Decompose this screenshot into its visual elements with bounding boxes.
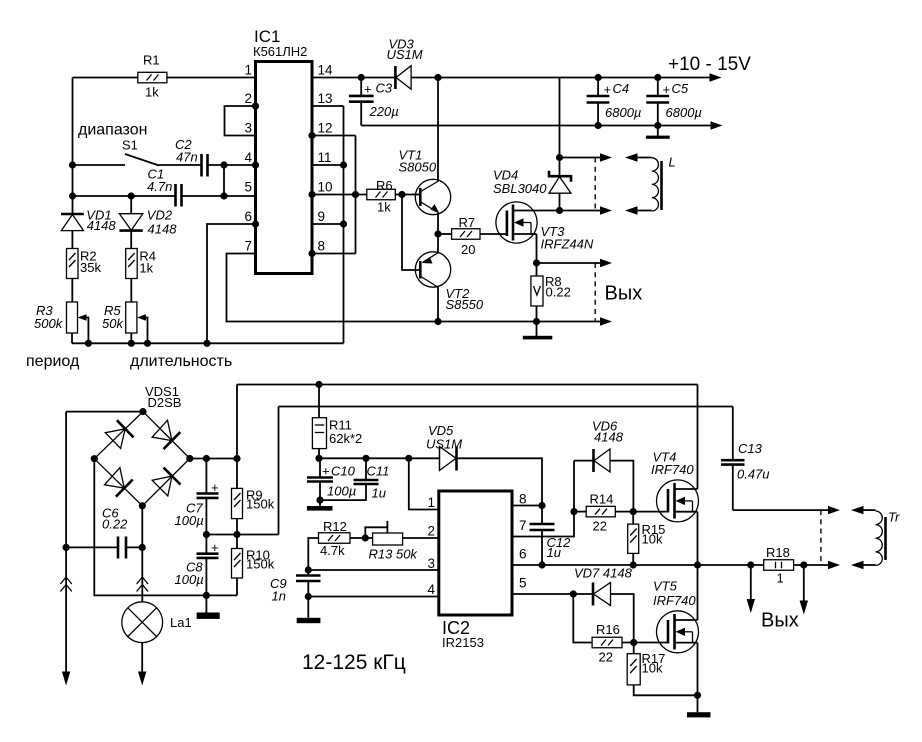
wire VT4 drain riser	[697, 385, 699, 490]
svg-text:5: 5	[244, 180, 252, 195]
svg-text:IRF740: IRF740	[651, 462, 694, 477]
node C6 right	[139, 544, 146, 551]
node R5 bottom	[128, 340, 135, 347]
node R5 wiper	[144, 340, 151, 347]
svg-text:10k: 10k	[642, 661, 663, 676]
node bridge E	[186, 455, 193, 462]
inductor L	[636, 155, 676, 212]
svg-text:R1: R1	[143, 53, 160, 68]
node C1 rail	[69, 192, 76, 199]
wire bridge minus	[94, 459, 237, 596]
potentiometer R13 50k	[365, 521, 439, 562]
svg-text:IRF740: IRF740	[653, 593, 696, 608]
svg-text:R7: R7	[459, 215, 476, 230]
node C2 link	[220, 161, 227, 168]
wire VT1 collector to +V	[437, 78, 439, 182]
node VD4 top	[556, 154, 563, 161]
node VT2 collector	[434, 318, 441, 325]
wire pin7 riser	[512, 461, 574, 537]
node R11 bottom	[315, 455, 322, 462]
svg-text:+: +	[604, 82, 612, 97]
svg-text:IR2153: IR2153	[442, 635, 484, 650]
capacitor C5	[646, 78, 702, 126]
wire bus2 pins 12-10-8	[312, 136, 356, 254]
svg-text:35k: 35k	[80, 260, 101, 275]
wire R2-R3	[71, 279, 73, 303]
svg-text:100µ: 100µ	[327, 484, 356, 499]
node VT5 source	[694, 692, 701, 699]
svg-text:50k: 50k	[102, 316, 124, 331]
node bridge S	[139, 502, 146, 509]
svg-text:11: 11	[318, 150, 332, 165]
svg-text:S8550: S8550	[446, 297, 484, 312]
node pin8	[538, 502, 545, 509]
wire L upper feed	[560, 157, 602, 159]
resistor R11 62k*2	[312, 385, 362, 459]
node VD4 bottom	[556, 207, 563, 214]
wire R6 node to VT2 base	[402, 195, 420, 271]
node pin8	[308, 250, 315, 257]
svg-text:0.22: 0.22	[546, 285, 571, 300]
transformer Tr	[862, 510, 900, 566]
svg-text:1n: 1n	[272, 589, 286, 604]
svg-text:R6: R6	[376, 178, 393, 193]
wire VT4 source riser	[697, 512, 699, 565]
svg-text:1k: 1k	[145, 85, 159, 100]
svg-text:US1M: US1M	[426, 437, 462, 452]
wire half-bridge mid rail	[279, 406, 733, 408]
svg-text:1u: 1u	[547, 545, 561, 560]
ground VT2 R8	[523, 322, 553, 340]
resistor R10	[232, 535, 275, 596]
diode VD6 4148	[574, 419, 633, 512]
arrow Tr lower feed	[828, 561, 840, 569]
arrow L upper	[600, 153, 612, 161]
bridge diode SW	[105, 468, 133, 497]
svg-text:C11: C11	[367, 464, 390, 479]
svg-text:Вых: Вых	[605, 283, 643, 305]
resistor R17	[627, 643, 697, 696]
capacitor C8	[175, 535, 219, 596]
node C1 link	[220, 192, 227, 199]
svg-text:R13 50k: R13 50k	[369, 547, 419, 562]
resistor R15	[628, 512, 666, 565]
node C4 top	[595, 74, 602, 81]
svg-text:4: 4	[244, 150, 252, 165]
svg-text:S8050: S8050	[399, 160, 437, 175]
svg-text:VD7 4148: VD7 4148	[574, 566, 633, 581]
svg-text:+: +	[663, 82, 671, 97]
svg-text:1: 1	[777, 571, 784, 586]
svg-text:VT5: VT5	[653, 579, 678, 594]
svg-text:22: 22	[593, 519, 607, 534]
pin numbers IC2 left	[427, 495, 435, 597]
wire +V rail	[438, 77, 711, 79]
svg-text:0.22: 0.22	[102, 517, 128, 532]
svg-text:R12: R12	[323, 519, 347, 534]
svg-text:К561ЛН2: К561ЛН2	[253, 44, 307, 59]
wire AC input 1	[66, 412, 143, 672]
svg-text:22: 22	[599, 650, 613, 665]
wire pin3 row	[308, 569, 439, 571]
capacitor C4	[587, 78, 642, 126]
node pin4	[252, 161, 259, 168]
node C10 bottom	[316, 497, 323, 504]
op-amp IC1 K561LN2 box	[253, 27, 312, 274]
svg-text:0.47u: 0.47u	[737, 467, 770, 482]
svg-text:7: 7	[519, 518, 527, 533]
resistor R2	[67, 249, 102, 279]
arrow Vyh upper	[600, 259, 612, 267]
svg-text:+: +	[322, 464, 330, 479]
svg-text:1: 1	[244, 63, 252, 78]
capacitor C3	[349, 78, 399, 126]
capacitor C6	[66, 506, 142, 559]
ground VT5	[687, 695, 711, 717]
svg-text:S1: S1	[122, 138, 138, 153]
wire R16 left riser	[573, 594, 592, 643]
wire cap midpoint rail	[206, 407, 278, 535]
wire VT1 emitter to R7 node	[437, 213, 439, 234]
svg-text:13: 13	[318, 91, 333, 106]
node bridge W	[91, 455, 98, 462]
capacitor C13	[721, 407, 770, 511]
node C4 bottom	[595, 122, 602, 129]
svg-text:L: L	[669, 155, 676, 170]
svg-text:100µ: 100µ	[175, 513, 204, 528]
resistor R14	[574, 492, 668, 534]
svg-text:C3: C3	[376, 81, 393, 96]
AC break marks input1	[60, 577, 71, 592]
svg-text:3: 3	[427, 556, 435, 571]
svg-text:220µ: 220µ	[369, 104, 399, 119]
wire VT5 drain riser	[697, 565, 699, 620]
node R14 left	[570, 508, 577, 515]
node bridge N	[139, 408, 146, 415]
svg-text:12-125 кГц: 12-125 кГц	[302, 651, 406, 674]
arrow Tr coil lower	[851, 561, 864, 569]
node half-bridge mid	[694, 561, 701, 568]
svg-text:Вых: Вых	[761, 610, 799, 632]
svg-text:3: 3	[244, 121, 252, 136]
svg-text:VD2: VD2	[147, 208, 173, 223]
svg-text:длительность: длительность	[130, 353, 232, 370]
wire VT2 emitter up	[437, 234, 439, 253]
svg-text:D2SB: D2SB	[148, 395, 182, 410]
svg-text:4148: 4148	[148, 222, 178, 237]
node C9 top	[305, 566, 312, 573]
wire pins 2-3 jumper	[225, 106, 256, 136]
wire pin1	[409, 458, 439, 509]
svg-text:C5: C5	[672, 81, 689, 96]
node bus1 pin11	[340, 161, 347, 168]
node R11 top	[315, 381, 322, 388]
ground C8	[197, 595, 220, 619]
svg-text:1u: 1u	[372, 486, 386, 501]
resistor R12	[308, 519, 365, 570]
svg-text:8: 8	[318, 239, 326, 254]
node Vyh tap 1	[747, 561, 754, 568]
svg-text:4: 4	[427, 582, 435, 597]
wire bottom rail	[72, 342, 344, 344]
svg-text:Tr: Tr	[888, 510, 900, 525]
node S1 rail	[69, 161, 76, 168]
pin numbers IC2 right	[519, 492, 527, 591]
wire pin5	[512, 593, 593, 595]
svg-text:12: 12	[318, 121, 333, 136]
arrow L coil lower	[625, 206, 638, 214]
node pin12	[308, 132, 315, 139]
bridge rectifier VDS1 D2SB frame	[94, 384, 190, 506]
svg-text:47n: 47n	[176, 150, 198, 165]
arrow +V rail	[710, 73, 722, 81]
transistor VT2 S8550	[415, 252, 484, 312]
switch S1	[73, 138, 160, 166]
wire pin10 to R6	[312, 194, 367, 196]
capacitor C7	[175, 459, 219, 535]
svg-text:14: 14	[318, 63, 334, 78]
svg-text:1k: 1k	[139, 261, 153, 276]
wire lamp to arrow	[141, 643, 143, 672]
wire connector dashed Tr	[820, 510, 822, 565]
node R7 junction	[434, 230, 441, 237]
wire pin14	[312, 77, 395, 79]
arrow ground bus	[711, 121, 723, 129]
ground C10	[307, 500, 333, 511]
resistor R16	[592, 622, 668, 665]
capacitor C12	[530, 506, 572, 566]
node C11 top	[362, 455, 369, 462]
wire C2-C1 link	[223, 165, 225, 196]
svg-text:IRFZ44N: IRFZ44N	[541, 237, 594, 252]
pin numbers IC1 right	[318, 63, 334, 254]
wire connector dashed Vyh	[594, 263, 596, 322]
node R6 out	[398, 191, 405, 198]
wire bridge plus rail	[190, 385, 237, 459]
svg-text:7: 7	[244, 239, 252, 254]
AC break marks input2	[137, 577, 148, 592]
arrow Vyh2 down 1	[747, 565, 755, 613]
svg-text:C4: C4	[613, 81, 630, 96]
diode VD5 US1M	[426, 423, 542, 506]
node pin10	[308, 191, 315, 198]
node pin2	[252, 102, 259, 109]
svg-text:10k: 10k	[642, 532, 663, 547]
svg-text:1k: 1k	[377, 200, 391, 215]
pin numbers IC1 left	[244, 63, 252, 254]
resistor R8	[531, 263, 571, 322]
node C9 bottom	[305, 593, 312, 600]
bridge diode NE	[152, 420, 180, 449]
svg-text:2: 2	[244, 91, 252, 106]
arrow AC2 down	[138, 672, 146, 686]
node bus1 pin9	[340, 220, 347, 227]
transistor VT4 IRF740	[651, 450, 699, 522]
svg-text:+: +	[211, 540, 219, 555]
svg-text:1: 1	[427, 495, 435, 510]
svg-text:9: 9	[318, 209, 326, 224]
svg-text:La1: La1	[170, 615, 192, 630]
transistor VT1 S8050	[399, 148, 451, 215]
node R15 bottom	[630, 561, 637, 568]
resistor R9	[232, 459, 275, 535]
node C6 left	[63, 544, 70, 551]
arrow Tr coil upper	[851, 506, 864, 514]
wire left rail	[72, 78, 74, 215]
svg-text:500k: 500k	[34, 316, 64, 331]
wire +310V rail	[237, 384, 698, 386]
diode VD7 4148	[574, 566, 634, 643]
wire pin8	[512, 505, 542, 507]
svg-text:62k*2: 62k*2	[329, 431, 362, 446]
op-amp IC2 IR2153 box	[439, 491, 512, 650]
node C5 top	[654, 74, 661, 81]
wire pin7 ground line	[227, 254, 602, 322]
wire VS row	[512, 564, 764, 566]
svg-text:SBL3040: SBL3040	[493, 181, 547, 196]
arrow Vyh lower	[600, 317, 612, 325]
wire VT2 collector down	[437, 288, 439, 322]
node pin6 riser	[203, 340, 210, 347]
potentiometer R5 50k	[102, 302, 148, 343]
node R8 top	[533, 259, 540, 266]
svg-text:100µ: 100µ	[175, 572, 204, 587]
svg-text:4148: 4148	[87, 218, 117, 233]
node Vyh tap 2	[800, 561, 807, 568]
svg-text:5: 5	[519, 576, 527, 591]
resistor R6	[367, 178, 396, 215]
wire L lower feed	[560, 210, 602, 212]
bridge diode NW	[105, 420, 133, 448]
wire VT5 source riser	[697, 643, 699, 696]
node pin14 C3	[358, 74, 365, 81]
svg-text:6800µ: 6800µ	[666, 105, 702, 120]
node C8 bottom	[203, 592, 210, 599]
diode VD4 SBL3040	[493, 78, 571, 211]
capacitor C1	[73, 167, 256, 207]
svg-text:8: 8	[519, 492, 527, 507]
node pin6	[252, 220, 259, 227]
node C5 bottom	[654, 122, 661, 129]
wire pin6	[207, 224, 256, 343]
node pin1 riser	[405, 455, 412, 462]
resistor R4	[126, 249, 156, 279]
diode VD3 US1M	[387, 37, 438, 90]
svg-text:R16: R16	[596, 622, 620, 637]
node R16 right	[630, 639, 637, 646]
node R8 bottom	[533, 318, 540, 325]
diode VD2 4148	[119, 196, 177, 249]
svg-text:6: 6	[244, 209, 252, 224]
capacitor C11	[320, 458, 389, 500]
wire connector dashed L	[594, 158, 596, 211]
wire AC input 2 lamp	[141, 506, 143, 602]
svg-text:диапазон: диапазон	[78, 122, 147, 139]
wire C13 to Tr	[733, 509, 829, 511]
transistor VT3 IRFZ44N	[496, 202, 594, 263]
node VT1 collector top	[434, 74, 441, 81]
node R3 wiper	[85, 340, 92, 347]
resistor R7	[438, 215, 507, 257]
svg-text:+: +	[211, 480, 219, 495]
node bus2 pin10	[352, 191, 359, 198]
wire pin4 row	[308, 596, 439, 598]
svg-text:150k: 150k	[246, 497, 275, 512]
capacitor C9	[270, 570, 321, 604]
ground C9	[297, 597, 321, 624]
svg-text:период: период	[26, 353, 80, 370]
svg-text:C13: C13	[738, 441, 763, 456]
svg-text:2: 2	[427, 524, 435, 539]
node R9 top	[233, 455, 240, 462]
arrow AC1 down	[62, 672, 70, 686]
wire Vyh upper	[537, 262, 602, 264]
wire R6 to VT1 base	[395, 194, 420, 196]
arrow L lower	[600, 206, 612, 214]
arrow L coil upper	[625, 153, 638, 161]
node R10 top	[233, 531, 240, 538]
svg-text:150k: 150k	[246, 557, 275, 572]
svg-text:4148: 4148	[594, 430, 624, 445]
node R14 right	[630, 508, 637, 515]
node C12 bottom	[538, 561, 545, 568]
arrow Vyh2 down 2	[800, 565, 808, 615]
diode VD1 4148	[61, 208, 116, 249]
capacitor C2	[159, 137, 256, 177]
arrow Tr upper feed	[828, 506, 840, 514]
svg-text:C10: C10	[331, 464, 356, 479]
svg-text:+: +	[364, 82, 372, 97]
resistor R18	[764, 545, 829, 586]
svg-text:6: 6	[519, 547, 527, 562]
svg-text:+10 - 15V: +10 - 15V	[668, 54, 751, 75]
transistor VT5 IRF740	[653, 579, 699, 653]
svg-text:6800µ: 6800µ	[605, 105, 641, 120]
potentiometer R3 500k	[34, 302, 88, 343]
bridge diode SE	[152, 468, 180, 496]
ground C5	[646, 126, 670, 139]
svg-text:20: 20	[461, 242, 475, 257]
node R12-R13	[362, 534, 369, 541]
wire bus1 pins 13-11-9	[312, 106, 344, 343]
wire ground bus	[361, 125, 712, 127]
svg-text:4.7k: 4.7k	[320, 543, 345, 558]
node VD2 top	[128, 192, 135, 199]
wire Vcc row	[319, 457, 440, 459]
wire R4-R5	[130, 279, 132, 303]
capacitor C10	[307, 458, 356, 500]
lamp La1	[122, 602, 192, 643]
svg-text:R14: R14	[590, 492, 614, 507]
svg-text:10: 10	[318, 180, 333, 195]
resistor R1	[73, 53, 256, 100]
node C8 top	[203, 531, 210, 538]
svg-text:4.7n: 4.7n	[147, 179, 172, 194]
svg-text:R18: R18	[766, 545, 790, 560]
node C7 top	[203, 455, 210, 462]
svg-text:US1M: US1M	[387, 47, 423, 62]
node VD7 left	[570, 590, 577, 597]
